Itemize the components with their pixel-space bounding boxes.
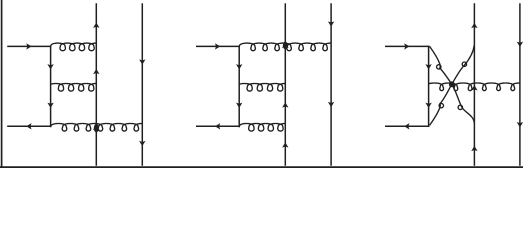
outgoing quark line D3 (385, 125, 429, 127)
internal quark segment D1 (50, 46, 52, 127)
quark arrow D3-f2-b (517, 122, 523, 127)
quark arrow D2-f2-b (328, 102, 334, 107)
gluon D3-g2 (middle long) (429, 83, 520, 91)
quark arrow D1-f2-b (139, 141, 145, 146)
internal quark segment D2 (238, 46, 240, 127)
antiquark arrow D1-f1-a (93, 23, 99, 28)
quark arrow D1-f2-a (139, 59, 145, 64)
internal quark segment D3 (428, 46, 430, 127)
antiquark arrow D3-f1-a (471, 23, 477, 28)
antiquark arrow D1-f1-b (93, 69, 99, 74)
gluon D3-g3 crossing arc (bottom-left to top-right) (430, 45, 475, 125)
antiquark arrow D2-f1-c (282, 142, 288, 147)
outgoing quark arrow D3 (404, 123, 409, 129)
incoming quark line D1 (7, 45, 51, 47)
gluon D3-g1 crossing arc (top-left to bottom-right) (430, 46, 475, 123)
quark line D1-f2 (141, 3, 143, 166)
three-line crossing blob D3 (449, 82, 454, 87)
quark line D3-f2 (519, 3, 521, 166)
incoming quark arrow D1 (26, 43, 31, 49)
antiquark line D3-f1 (473, 3, 475, 166)
frame left border (1, 0, 3, 168)
antiquark line D2-f1 (284, 3, 286, 166)
quark line D2-f2 (330, 3, 332, 166)
antiquark arrow D3-f1-c (471, 146, 477, 151)
frame bottom border (0, 166, 523, 168)
outgoing quark arrow D2 (215, 123, 220, 129)
outgoing quark line D1 (7, 125, 51, 127)
gluon D2-g3 (bottom) (239, 124, 285, 132)
quark segment arrow D3-a (425, 64, 431, 69)
quark arrow D2-f2-a (328, 21, 334, 26)
quark segment arrow D2-a (236, 64, 242, 69)
quark segment arrow D2-b (236, 103, 242, 108)
incoming quark line D2 (196, 45, 240, 47)
quark segment arrow D1-a (47, 64, 53, 69)
antiquark arrow D2-f1-b (282, 102, 288, 107)
antiquark line D1-f1 (95, 3, 97, 166)
gluon D1-g1 (top) (51, 43, 97, 51)
outgoing quark arrow D1 (26, 123, 31, 129)
incoming quark line D3 (385, 45, 429, 47)
antiquark arrow D3-f1-b (471, 85, 477, 90)
quark arrow D3-f2-a (517, 42, 523, 47)
gluon D1-g3 (bottom long) (51, 124, 143, 132)
gluon D2-g1 (top long) (239, 43, 331, 51)
incoming quark arrow D2 (215, 43, 220, 49)
antiquark arrow D1-f1-c under gluon (93, 124, 100, 130)
outgoing quark line D2 (196, 125, 240, 127)
antiquark arrow D2-f1-a under gluon (282, 42, 289, 48)
gluon D1-g2 (middle) (51, 84, 97, 92)
incoming quark arrow D3 (404, 43, 409, 49)
gluon D2-g2 (middle) (239, 84, 285, 92)
quark segment arrow D1-b (47, 103, 53, 108)
quark segment arrow D3-b (425, 103, 431, 108)
